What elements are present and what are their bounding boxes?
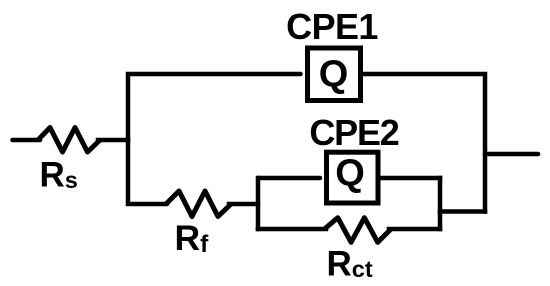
svg-text:Q: Q [335,153,365,195]
wire inner block right bar [438,178,443,229]
wire top branch CPE1 to right vertical [362,74,485,212]
resistor Rs [38,128,100,153]
wire inner block to right vertical [440,209,485,214]
wire left vertical and top branch toward CPE1 [128,74,301,204]
wire inner bottom branch left of Rct [258,227,326,232]
svg-text:CPE2: CPE2 [309,112,398,153]
wire inner top branch CPE2 to right bar [379,176,440,181]
wire Rs to node A [98,138,128,143]
wire inner block left bar [256,178,261,229]
CPE element CPE2 box [327,152,379,203]
svg-text:Rct: Rct [327,245,373,284]
svg-text:Q: Q [319,54,349,96]
wire inner top branch toward CPE2 [258,176,320,181]
wire Rf to inner parallel block [229,202,258,207]
svg-text:CPE1: CPE1 [286,6,378,47]
svg-text:Rf: Rf [175,218,210,258]
wire inner bottom branch right of Rct [389,227,440,232]
wire input lead [13,138,41,143]
resistor Rct [325,218,392,243]
CPE element CPE1 box [308,48,361,101]
resistor Rf [166,191,231,217]
wire output lead [485,152,538,157]
svg-text:Rs: Rs [40,156,78,195]
